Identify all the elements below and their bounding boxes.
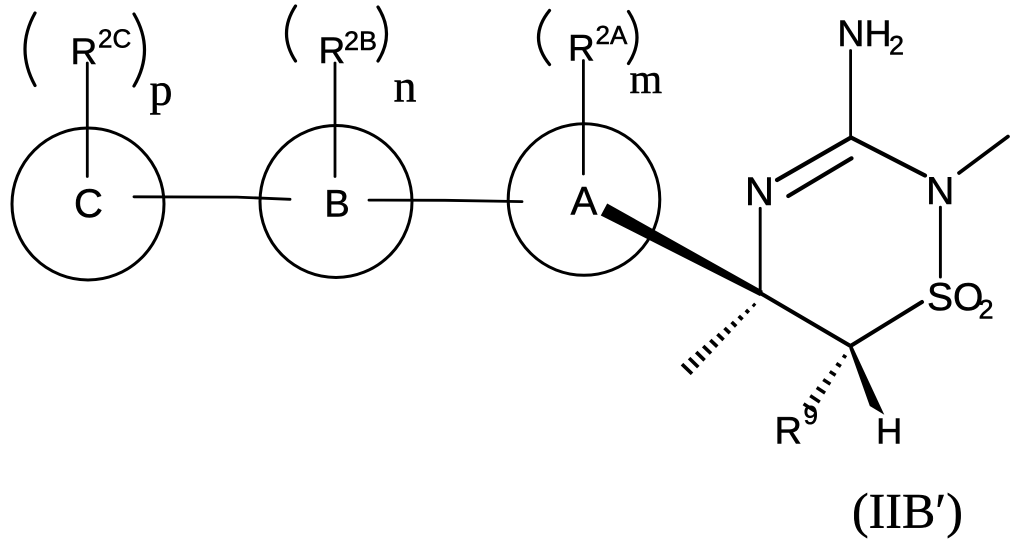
svg-text:2: 2 bbox=[889, 31, 904, 61]
svg-text:2B: 2B bbox=[344, 26, 377, 56]
svg-text:m: m bbox=[630, 57, 663, 103]
svg-text:C: C bbox=[74, 182, 103, 226]
svg-text:2C: 2C bbox=[98, 24, 131, 54]
svg-text:R: R bbox=[319, 30, 346, 71]
svg-text:n: n bbox=[394, 60, 417, 111]
svg-text:R: R bbox=[775, 411, 802, 453]
svg-text:NH: NH bbox=[837, 12, 891, 54]
svg-text:2: 2 bbox=[979, 295, 994, 325]
svg-text:N: N bbox=[745, 170, 774, 214]
svg-text:N: N bbox=[926, 170, 954, 213]
svg-text:2A: 2A bbox=[596, 20, 628, 50]
svg-text:p: p bbox=[150, 64, 173, 115]
svg-text:SO: SO bbox=[927, 276, 983, 319]
svg-text:(IIB′): (IIB′) bbox=[852, 483, 963, 539]
svg-text:A: A bbox=[571, 179, 598, 223]
svg-text:R: R bbox=[568, 28, 595, 69]
svg-text:R: R bbox=[71, 31, 98, 72]
svg-text:B: B bbox=[324, 184, 349, 226]
svg-text:9: 9 bbox=[804, 400, 818, 430]
svg-text:H: H bbox=[876, 410, 902, 451]
